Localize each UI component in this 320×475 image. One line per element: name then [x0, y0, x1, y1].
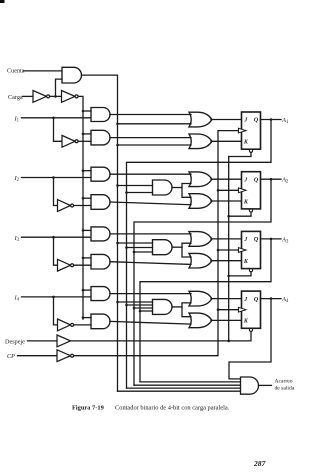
wire CP bus to FF3 clock: [218, 249, 238, 251]
node Q1 tap stage 4: [125, 304, 128, 307]
inverter I2': [58, 200, 74, 212]
wire I3 to AND gate: [22, 236, 92, 238]
wire OR K4 to flip-flop K input: [211, 319, 242, 321]
wire Despeje buffer to clear bus: [71, 340, 229, 342]
inverter I1': [62, 135, 78, 147]
wire Q1 output: [261, 119, 282, 121]
or-gate J1: [189, 112, 212, 127]
wire Q2 feedback to chain: [134, 179, 271, 385]
inverter I4': [58, 319, 74, 331]
svg-text:Q: Q: [254, 297, 259, 303]
label Carga (load input): [8, 94, 23, 101]
node I3 input label: [14, 235, 20, 243]
node Q2 tap stage 4: [133, 307, 136, 310]
wire load bus tap to lower AND I4: [83, 317, 91, 319]
wire I3 drop to inverter: [54, 237, 58, 265]
corner mark: [0, 0, 5, 3]
and-gate load-I2 (upper): [91, 167, 110, 181]
wire Q4 output: [261, 298, 282, 300]
node load bus tap A4: [82, 289, 85, 292]
label Cuenta (count input): [7, 67, 25, 74]
wire Q3 output: [261, 238, 282, 240]
svg-text:Q: Q: [254, 118, 259, 124]
node I1 input label: [14, 115, 20, 123]
wire Q1 bus into carry gate: [127, 387, 241, 389]
node Q1 junction: [270, 118, 273, 121]
svg-text:Carga: Carga: [8, 94, 23, 101]
node CP tap FF4: [217, 308, 220, 311]
or-gate K2: [189, 194, 212, 209]
svg-text:I1: I1: [14, 115, 20, 123]
wire inverter G1 to node: [50, 95, 62, 97]
wire Carga' riser to count AND: [56, 79, 63, 96]
wire count bus tap to OR K1: [118, 144, 192, 146]
inverter G2 Carga buffer: [62, 91, 79, 103]
wire OR J3 to flip-flop J input: [211, 238, 242, 240]
node Q3 junction: [270, 238, 273, 241]
svg-text:Figura 7-19: Figura 7-19: [72, 405, 104, 412]
node count tap J1: [116, 123, 119, 126]
wire load bus tap to upper AND I3: [83, 229, 91, 231]
wire Cuenta to AND gate: [24, 70, 63, 72]
wire CP bus to FF1 clock: [218, 130, 238, 132]
node CP tap FF2: [217, 189, 220, 192]
node I1 junction: [52, 117, 55, 120]
label Despeje (clear input): [5, 338, 25, 345]
svg-text:I4: I4: [14, 295, 20, 303]
svg-text:CP: CP: [7, 353, 15, 360]
wire Q1 bus tap to chain AND 2: [127, 192, 153, 194]
and-gate count enable (Cuenta AND Carga'): [62, 67, 82, 83]
node I4 input label: [14, 295, 20, 303]
wire FF1 clear to clear bus: [229, 152, 251, 156]
wire FF2 clear to clear bus: [229, 212, 251, 216]
node load bus tap A3: [82, 229, 85, 232]
wire inverter I1' to lower AND: [78, 140, 91, 142]
node I2 junction: [52, 176, 55, 179]
wire CP to buffer: [18, 355, 58, 357]
svg-text:I2: I2: [14, 175, 20, 183]
wire count bus tap to chain AND 4: [118, 301, 153, 303]
wire Q1 bus tap to chain AND 3: [127, 247, 153, 249]
wire upper AND I3 out to OR J3: [110, 233, 191, 235]
node clear/Despeje junction: [227, 340, 230, 343]
svg-text:A3: A3: [281, 236, 289, 244]
node I3 junction: [52, 236, 55, 239]
flip-flop FF2 (JK): [238, 172, 260, 212]
node I2 input label: [14, 175, 20, 183]
wire inverter I2' to lower AND: [74, 205, 91, 207]
wire lower AND I3 out to OR K3: [110, 262, 191, 265]
wire Q1 bus tap to chain AND 4: [127, 304, 153, 306]
buffer Despeje: [57, 335, 71, 347]
wire chain AND 2 output to fork: [172, 187, 182, 189]
wire load bus tap to lower AND I2: [83, 197, 91, 199]
wire chain AND 4 output to fork: [172, 306, 182, 308]
wire upper AND I1 out to OR J1: [110, 114, 191, 116]
wire OR J1 to flip-flop J input: [211, 119, 242, 121]
wire carry output: [259, 384, 272, 386]
wire load bus tap to upper AND I2: [83, 170, 91, 172]
flip-flop FF4 (JK): [238, 291, 260, 331]
and-gate load-I3' (lower): [91, 254, 110, 269]
wire count-enable output to count bus: [82, 75, 118, 391]
wire upper AND I4 out to OR J4: [110, 293, 191, 295]
wire lower AND I2 out to OR K2: [110, 202, 191, 205]
node A1 output label: [281, 117, 289, 125]
node count tap K1: [116, 144, 119, 147]
node CP tap FF3: [217, 249, 220, 252]
or-gate K1: [189, 134, 212, 149]
flip-flop FF3 (JK): [238, 231, 260, 271]
wire load bus tap to lower AND I3: [83, 257, 91, 259]
wire inverter I3' to lower AND: [74, 264, 91, 266]
node load bus tap A2: [82, 169, 85, 172]
node A4 output label: [281, 296, 289, 304]
wire Q2 bus tap to chain AND 3: [134, 251, 153, 253]
svg-text:A2: A2: [281, 177, 289, 185]
node load bus tap A1: [82, 110, 85, 113]
or-gate K3: [189, 253, 212, 268]
node I4 junction: [52, 296, 55, 299]
wire FF3 clear to clear bus: [229, 272, 251, 276]
wire OR J2 to flip-flop J input: [211, 178, 242, 180]
svg-text:A1: A1: [281, 117, 289, 125]
flip-flop FF1 (JK): [238, 112, 260, 152]
svg-text:287: 287: [253, 459, 267, 468]
wire CP buffer to clock bus: [74, 131, 218, 356]
and-gate carry output: [241, 377, 259, 394]
caption Figura 7-19: [72, 405, 230, 412]
wire Q1 feedback to chain: [127, 120, 272, 389]
svg-text:A4: A4: [281, 296, 289, 304]
wire OR J4 to flip-flop J input: [211, 298, 242, 300]
or-gate J4: [189, 291, 212, 306]
wire Q3 bus tap to chain AND 4: [140, 310, 153, 312]
node count tap stage 4: [116, 301, 119, 304]
or-gate J3: [189, 232, 212, 247]
wire Carga to inverter: [23, 95, 34, 97]
wire fork stage 2: [182, 184, 191, 198]
or-gate K4: [189, 313, 212, 328]
and-gate carry-chain stage 3: [153, 240, 173, 255]
wire OR K1 to flip-flop K input: [211, 140, 242, 142]
inverter G1 Carga: [33, 91, 50, 103]
node Q2 junction: [270, 178, 273, 181]
and-gate load-I4 (upper): [91, 287, 110, 301]
wire Q2 output: [261, 178, 282, 180]
wire CP bus to FF4 clock: [218, 309, 238, 311]
node clear tap FF3: [227, 275, 230, 278]
node load bus tap B1: [82, 133, 85, 136]
wire count bus tap to OR J1: [118, 123, 192, 125]
wire clear bus: [228, 157, 230, 341]
node load bus tap B3: [82, 257, 85, 260]
wire load buffer to load bus: [78, 96, 83, 319]
node count tap stage 3: [116, 242, 119, 245]
label Acarreo de salida: [275, 378, 295, 391]
node Carga' junction: [54, 95, 57, 98]
svg-text:Cuenta: Cuenta: [7, 67, 25, 74]
node Q1 tap stage 3: [125, 246, 128, 249]
and-gate carry-chain stage 2: [153, 180, 173, 195]
or-gate J2: [189, 172, 212, 187]
svg-text:I3: I3: [14, 235, 20, 243]
wire load bus tap to lower AND I1: [83, 133, 91, 135]
and-gate load-I1 (upper): [91, 108, 110, 122]
wire OR K2 to flip-flop K input: [211, 200, 242, 202]
and-gate load-I1' (lower): [91, 130, 110, 145]
wire Q3 bus into carry gate: [140, 381, 241, 383]
wire Q2 bus into carry gate: [134, 384, 241, 386]
wire OR K3 to flip-flop K input: [211, 260, 242, 262]
wire fork stage 3: [182, 243, 191, 257]
svg-text:Acarreo: Acarreo: [275, 378, 293, 384]
inverter CP: [57, 350, 74, 362]
node A2 output label: [281, 177, 289, 185]
wire lower AND I4 out to OR K4: [110, 321, 191, 324]
svg-text:de salida: de salida: [275, 386, 295, 392]
wire upper AND I2 out to OR J2: [110, 173, 191, 175]
wire Q4 to carry gate: [229, 299, 271, 379]
wire Q3 feedback to chain: [140, 239, 271, 382]
label CP (clock input): [7, 353, 15, 360]
and-gate load-I2' (lower): [91, 195, 110, 210]
wire I4 to AND gate: [22, 296, 92, 298]
node load bus tap B2: [82, 197, 85, 200]
wire FF4 clear to clear bus: [229, 332, 251, 341]
node load bus tap B4: [82, 316, 85, 319]
wire count bus tap to chain AND 2: [118, 185, 153, 187]
wire inverter I4' to lower AND: [74, 324, 91, 326]
and-gate load-I3 (upper): [91, 227, 110, 241]
and-gate load-I4' (lower): [91, 314, 110, 329]
wire load bus tap to upper AND I1: [83, 110, 91, 112]
wire I1 drop to inverter: [54, 118, 63, 142]
and-gate carry-chain stage 4: [153, 299, 173, 314]
wire fork stage 4: [182, 303, 191, 317]
wire lower AND I1 out to OR K1: [110, 137, 191, 139]
node clear tap FF2: [227, 215, 230, 218]
wire count bus tap to chain AND 3: [118, 242, 153, 244]
page number 287: [253, 459, 267, 468]
wire Q2 bus tap to chain AND 4: [134, 307, 153, 309]
svg-text:Despeje: Despeje: [5, 338, 25, 345]
wire I4 drop to inverter: [54, 297, 58, 325]
svg-text:Q: Q: [254, 237, 259, 243]
node Q2 tap stage 3: [133, 251, 136, 254]
wire I2 drop to inverter: [54, 178, 58, 206]
node count tap stage 2: [116, 184, 119, 187]
node Q4 junction: [270, 297, 273, 300]
wire load bus tap to upper AND I4: [83, 289, 91, 291]
wire CP bus to FF2 clock: [218, 189, 238, 191]
wire Despeje to buffer: [28, 340, 58, 342]
svg-text:Q: Q: [254, 177, 259, 183]
node A3 output label: [281, 236, 289, 244]
wire I1 to AND gate: [22, 117, 92, 119]
wire count bus into carry gate bottom input: [118, 390, 241, 392]
wire chain AND 3 output to fork: [172, 246, 182, 248]
inverter I3': [58, 259, 74, 271]
svg-text:Contador binario de 4-bit con: Contador binario de 4-bit con carga para…: [115, 405, 230, 412]
node Q1 tap stage 2: [125, 191, 128, 194]
wire I2 to AND gate: [22, 177, 92, 179]
node Q3 tap stage 4: [139, 310, 142, 313]
